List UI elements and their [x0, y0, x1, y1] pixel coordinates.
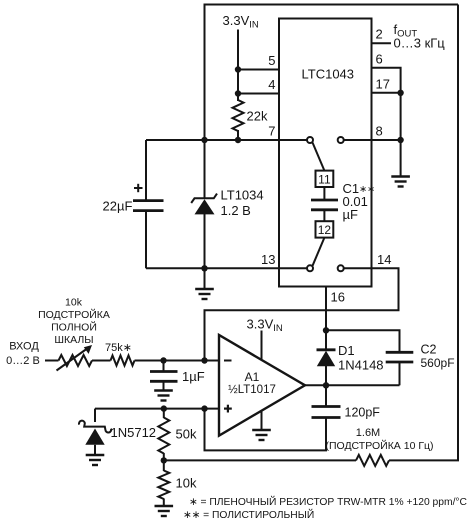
- potentiometer 10k full-scale trim zigzag: [59, 355, 93, 366]
- svg-text:8: 8: [376, 124, 383, 139]
- wire S1 right contact to pin 8: [344, 139, 372, 141]
- wire pin 5: [238, 69, 279, 71]
- wire pin 16 vertical: [325, 287, 327, 331]
- wire pin 17: [372, 92, 401, 94]
- svg-text:∗∗ = ПОЛИСТИРОЛЬНЫЙ: ∗∗ = ПОЛИСТИРОЛЬНЫЙ: [183, 508, 314, 521]
- switch S2 left contact (pin 13): [307, 265, 313, 271]
- wire D1 anode to output: [325, 366, 327, 385]
- svg-text:4: 4: [268, 77, 275, 92]
- wire stub to ground below pin13 node: [204, 268, 206, 288]
- svg-text:D1: D1: [338, 343, 355, 358]
- node junction dot pin4/3.3V: [235, 90, 241, 96]
- svg-text:12: 12: [318, 223, 332, 237]
- node junction dot pin16/D1/C2: [323, 327, 329, 333]
- op-amp minus input marker: [224, 360, 232, 362]
- wire S2 right contact to pin 14: [344, 267, 372, 269]
- ground symbol 1uF: [154, 391, 173, 401]
- ground symbol below LT1034: [195, 289, 214, 299]
- resistor 10k bottom: [158, 471, 169, 500]
- switch S1 left contact (pin 7): [307, 137, 313, 143]
- ground symbol 1N5712: [86, 455, 105, 465]
- svg-text:120pF: 120pF: [345, 406, 381, 420]
- svg-text:∗ = ПЛЕНОЧНЫЙ РЕЗИСТОР TRW-MTR: ∗ = ПЛЕНОЧНЫЙ РЕЗИСТОР TRW-MTR 1% +120 p…: [189, 495, 468, 508]
- wire pin 13 net (ground row): [146, 267, 307, 269]
- wire output node: [305, 384, 400, 386]
- svg-text:6: 6: [376, 51, 383, 66]
- capacitor C1 plates: [311, 199, 338, 202]
- wire bottom row to 1.6M: [164, 459, 356, 461]
- wire D1 cathode stub: [325, 330, 327, 350]
- pin 11 box: [316, 171, 334, 187]
- capacitor 22uF plates: [133, 199, 164, 202]
- wire 10k stubs: [163, 460, 165, 471]
- wire pin 7 net (1.2V reference row): [146, 139, 307, 141]
- node junction dot pin17: [397, 90, 403, 96]
- zener LT1034 cathode bar: [191, 194, 217, 203]
- svg-text:50k: 50k: [176, 427, 197, 442]
- svg-text:µF: µF: [343, 207, 358, 222]
- node junction dot 1uF top: [160, 357, 166, 363]
- svg-text:7: 7: [268, 124, 275, 139]
- svg-text:1.2 В: 1.2 В: [221, 203, 251, 218]
- node junction dot output: [323, 382, 329, 388]
- resistor 1.6M zigzag: [356, 455, 389, 466]
- wire 75k to minus input: [135, 360, 205, 362]
- svg-text:5: 5: [268, 53, 275, 68]
- resistor 22k: [233, 100, 244, 131]
- node junction dot pin5/3.3V: [235, 66, 241, 72]
- wire C1 to pin12 box: [323, 210, 325, 221]
- svg-text:ВХОД: ВХОД: [9, 341, 39, 353]
- node junction dot 50k/10k/1.6M: [161, 457, 167, 463]
- wire zener anode to pin13 net: [204, 214, 206, 268]
- node junction dot zener / pin13: [201, 265, 207, 271]
- wire 120pF top branch: [325, 385, 327, 406]
- svg-text:(ПОДСТРОЙКА 10 Гц): (ПОДСТРОЙКА 10 Гц): [325, 439, 433, 452]
- wire 22uF bottom to pin13 net: [145, 211, 147, 269]
- svg-text:LTC1043: LTC1043: [302, 67, 355, 82]
- capacitor 22uF branch upper wire: [145, 140, 147, 201]
- svg-text:16: 16: [331, 290, 345, 305]
- wire minus input: [205, 360, 220, 362]
- resistor 75k zigzag: [111, 356, 135, 366]
- wire op-amp V+ supply: [261, 331, 263, 360]
- capacitor 120pF plates: [312, 405, 341, 408]
- wire pin 6: [372, 68, 401, 176]
- capacitor C2 plates: [386, 351, 414, 354]
- switch S1 arm: [313, 143, 325, 171]
- wire pin 14 feedback to summing node: [205, 268, 399, 360]
- svg-text:22µF: 22µF: [103, 199, 133, 214]
- diode D1 triangle: [317, 351, 335, 367]
- wire pin11 box to C1: [323, 187, 325, 200]
- svg-text:75k∗: 75k∗: [105, 342, 132, 354]
- svg-text:14: 14: [377, 252, 391, 267]
- svg-text:0…3 кГц: 0…3 кГц: [394, 36, 446, 51]
- node junction dot plus input: [201, 405, 207, 411]
- svg-text:0…2 В: 0…2 В: [6, 355, 40, 367]
- svg-text:2: 2: [376, 27, 383, 42]
- potentiometer arrow: [57, 349, 87, 371]
- wire C2 top branch: [326, 330, 400, 352]
- wire 1uF top stub: [163, 361, 165, 372]
- svg-text:A1: A1: [245, 370, 260, 384]
- svg-text:560pF: 560pF: [421, 356, 455, 370]
- svg-text:ШКАЛЫ: ШКАЛЫ: [54, 334, 93, 346]
- wire top border of reference feedback loop: [204, 4, 459, 6]
- switch S1 right contact (pin 8): [338, 137, 344, 143]
- schottky 1N5712 cathode bar with curls: [79, 421, 111, 433]
- wire 1uF bottom stub: [163, 381, 165, 390]
- svg-text:1µF: 1µF: [182, 369, 205, 384]
- svg-text:1N4148: 1N4148: [338, 358, 384, 373]
- svg-text:1N5712: 1N5712: [111, 425, 157, 440]
- wire pin 8 outside stub: [372, 139, 401, 141]
- ground symbol op-amp V-: [252, 430, 271, 440]
- wire 3.3VIN vertical supply: [237, 30, 239, 102]
- op-amp plus input marker: [224, 405, 232, 413]
- wire 1.6M to right border: [389, 459, 459, 461]
- op-amp A1 triangle: [219, 335, 305, 436]
- wire 120pF bottom to plus input: [205, 409, 327, 451]
- wire pot to 75k: [92, 360, 111, 362]
- svg-text:C2: C2: [421, 343, 437, 357]
- wire 1N5712 branch down: [94, 409, 96, 422]
- schottky 1N5712 triangle: [85, 429, 104, 445]
- node junction dot pin8: [397, 137, 403, 143]
- wire pin 2 output stub: [372, 42, 392, 44]
- ground symbol 10k: [155, 506, 174, 516]
- wire right border (feedback to 1.6M): [457, 5, 459, 461]
- svg-text:10k: 10k: [65, 297, 83, 309]
- svg-text:ПОЛНОЙ: ПОЛНОЙ: [51, 321, 97, 334]
- switch S2 arm: [313, 238, 325, 266]
- wire C2 bottom branch: [399, 362, 401, 385]
- resistor 50k: [158, 418, 169, 454]
- ground symbol right side (pins 6/17/8): [391, 177, 410, 187]
- node junction dot 50k top: [161, 405, 167, 411]
- node junction dot minus input: [201, 357, 207, 363]
- svg-text:LT1034: LT1034: [221, 188, 264, 203]
- svg-text:22k: 22k: [247, 109, 268, 124]
- wire op-amp V- to ground: [261, 411, 263, 430]
- wire input: [45, 360, 59, 362]
- svg-text:3.3VIN: 3.3VIN: [247, 317, 283, 335]
- node junction dot 22k / pin7: [235, 137, 241, 143]
- wire 22k bottom to pin7 net: [237, 130, 239, 140]
- diode D1 cathode bar: [317, 348, 336, 351]
- svg-text:3.3VIN: 3.3VIN: [223, 13, 259, 31]
- svg-text:13: 13: [261, 252, 275, 267]
- svg-text:17: 17: [376, 76, 390, 91]
- wire left border (reference node) upper segment: [204, 4, 206, 199]
- wire plus input row: [95, 408, 219, 410]
- switch S2 right contact (pin 14): [338, 265, 344, 271]
- wire 1N5712 anode stub: [94, 445, 96, 455]
- svg-text:ПОДСТРОЙКА: ПОДСТРОЙКА: [38, 308, 110, 321]
- pin 12 box: [316, 221, 334, 237]
- wire 50k stubs: [163, 409, 165, 418]
- svg-text:½LT1017: ½LT1017: [228, 384, 276, 396]
- capacitor 1uF plates: [150, 370, 178, 373]
- svg-text:10k: 10k: [176, 476, 197, 491]
- capacitor 22uF polarity plus sign: [134, 184, 143, 192]
- svg-text:11: 11: [318, 173, 331, 187]
- svg-text:1.6М: 1.6М: [356, 427, 380, 439]
- node junction dot left border / pin7: [201, 137, 207, 143]
- zener LT1034 triangle: [195, 199, 215, 214]
- IC U1 LTC1043 outline: [279, 19, 372, 287]
- wire pin 4: [238, 93, 279, 95]
